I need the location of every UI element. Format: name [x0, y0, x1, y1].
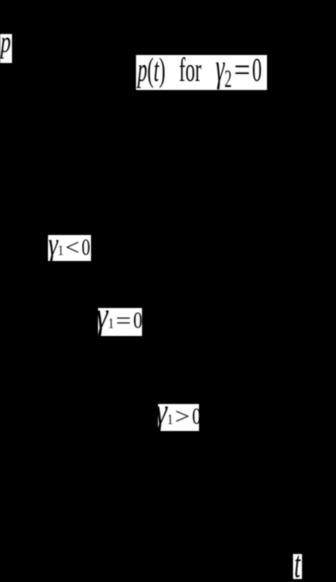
curve label gamma1 = 0 [98, 308, 142, 336]
axis label p (y-axis) [0, 34, 12, 63]
axis label t (x-axis) [293, 554, 302, 579]
title label p(t) for gamma2 = 0 [136, 55, 267, 90]
curve label gamma1 > 0 [158, 404, 199, 431]
curve label gamma1 < 0 [48, 235, 91, 261]
